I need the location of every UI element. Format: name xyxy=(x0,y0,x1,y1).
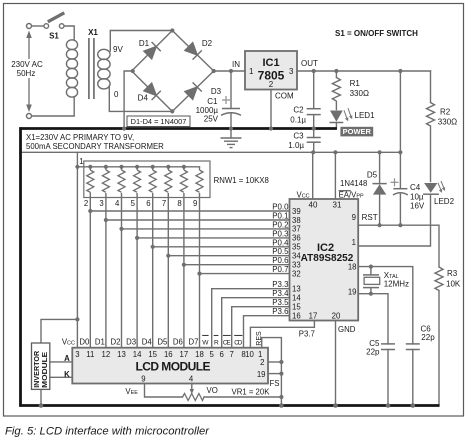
junction C4 / RST line xyxy=(398,223,402,227)
wire bridge left node to ground rail xyxy=(124,71,133,129)
LCD MODULE box xyxy=(72,348,268,384)
svg-text:19: 19 xyxy=(257,370,266,379)
op IC2 AT89S8252 microcontroller xyxy=(290,199,359,321)
svg-text:22p: 22p xyxy=(366,348,380,357)
svg-text:33: 33 xyxy=(292,261,301,270)
svg-text:VO: VO xyxy=(207,386,218,395)
capacitor C5 xyxy=(381,344,395,350)
junction LCD common to ground rail xyxy=(279,403,284,408)
svg-text:P0.2: P0.2 xyxy=(272,220,288,229)
junction RNW1 pin1 / Vcc trunk xyxy=(75,165,79,169)
node P3.6 wire to LCD CD pin8 xyxy=(244,316,290,348)
svg-text:50Hz: 50Hz xyxy=(17,69,36,78)
ground symbol below C1 xyxy=(221,138,242,148)
junction RNW1 common rail r7 xyxy=(182,165,186,169)
svg-text:1N4148: 1N4148 xyxy=(340,179,367,188)
wire +5V rail xyxy=(21,151,401,153)
junction XTAL1 pin18 xyxy=(369,265,373,269)
node POWER label xyxy=(340,127,373,137)
svg-text:230V AC: 230V AC xyxy=(11,60,43,69)
wire C5 bottom to ground rail xyxy=(387,350,389,406)
svg-text:A: A xyxy=(64,354,70,363)
wire R2 leads xyxy=(430,71,432,103)
capacitor C3 xyxy=(307,138,321,143)
node P0.5 wire xyxy=(168,255,289,257)
wire C3 leads xyxy=(313,129,315,138)
svg-text:3: 3 xyxy=(99,199,103,208)
svg-text:P3.5: P3.5 xyxy=(272,298,289,307)
svg-text:8: 8 xyxy=(177,199,181,208)
junction bridge top node xyxy=(170,28,174,32)
svg-text:RNW1 = 10KX8: RNW1 = 10KX8 xyxy=(214,176,269,185)
wire AC top terminal to S1 xyxy=(32,25,45,27)
svg-text:K: K xyxy=(64,370,70,379)
junction bridge left node xyxy=(131,69,135,73)
svg-text:X1: X1 xyxy=(88,28,98,37)
svg-text:W: W xyxy=(202,339,209,346)
svg-text:2: 2 xyxy=(260,358,264,367)
LCD top pin numbers xyxy=(75,350,262,359)
svg-text:13: 13 xyxy=(292,285,301,294)
wire LED1 to ground rail end xyxy=(335,123,337,129)
svg-text:VR1 = 20K: VR1 = 20K xyxy=(232,388,271,397)
junction LCD pin19 xyxy=(279,372,283,376)
RNW1 resistors xyxy=(87,167,203,193)
diode D5 xyxy=(373,184,386,194)
svg-text:37: 37 xyxy=(292,225,301,234)
resistor R1 xyxy=(332,78,340,102)
wire C2 leads xyxy=(313,71,315,109)
AC input terminal top xyxy=(27,24,32,29)
svg-text:RST: RST xyxy=(362,213,378,222)
wire IC2 pin18 to C6 xyxy=(358,267,413,344)
thick ground bus: left vertical xyxy=(19,127,22,405)
junction IC1 COM to ground bus xyxy=(269,126,273,130)
wire LCD pinA to invertor xyxy=(50,361,73,363)
svg-text:18: 18 xyxy=(348,262,357,271)
AC input terminal bottom xyxy=(27,114,32,119)
svg-text:5: 5 xyxy=(131,199,136,208)
svg-text:R: R xyxy=(214,339,219,346)
junction bridge negative to ground bus xyxy=(122,126,126,130)
svg-text:18: 18 xyxy=(195,350,204,359)
IC2 left pin numbers xyxy=(292,207,301,321)
junction RNW1 common rail r1 xyxy=(88,165,92,169)
wire LCD pin19 xyxy=(268,373,281,375)
svg-text:1: 1 xyxy=(352,238,356,247)
wire S1 to transformer primary top xyxy=(64,26,74,40)
thick ground bus: bottom rail xyxy=(19,404,439,407)
wire LED2 cathode to IC2 pin1 xyxy=(358,195,430,246)
svg-text:31: 31 xyxy=(333,201,342,210)
node P3.3 wire to LCD W pin5 xyxy=(212,289,290,348)
wire D5/P0.5 bus wire from RNW1 pin7 xyxy=(167,193,169,348)
junction XTAL2 pin19 xyxy=(369,292,373,296)
svg-text:17: 17 xyxy=(309,312,318,321)
wire IC2 pin20 GND to ground rail xyxy=(335,321,337,406)
junction VR1 wire xyxy=(279,395,283,399)
diode D3 xyxy=(185,82,202,99)
svg-text:D5: D5 xyxy=(157,338,168,347)
svg-text:P0.3: P0.3 xyxy=(272,229,289,238)
node P3.4 wire to LCD R pin6 xyxy=(222,298,290,348)
capacitor C4 xyxy=(393,189,408,195)
svg-text:S1 = ON/OFF SWITCH: S1 = ON/OFF SWITCH xyxy=(335,29,418,38)
junction RNW1 common rail r6 xyxy=(166,165,170,169)
junction P0.1 tap xyxy=(104,218,108,222)
wire invertor module to ground rail xyxy=(40,389,42,405)
junction C3 / +5V rail / IC2 Vcc xyxy=(311,150,315,154)
junction invertor supply tap xyxy=(75,317,79,321)
wire IC2 EA pin31 xyxy=(334,152,336,199)
wire LCD pin4 VO wiper xyxy=(191,384,193,390)
svg-text:P0.7: P0.7 xyxy=(272,265,288,274)
svg-text:4: 4 xyxy=(115,199,120,208)
data bus vertical wires RNW1 pins 2-9 to LCD D0-D7 xyxy=(90,193,289,348)
svg-text:CE: CE xyxy=(223,339,231,346)
svg-text:19: 19 xyxy=(348,288,357,297)
svg-text:D1-D4 = 1N4007: D1-D4 = 1N4007 xyxy=(131,117,187,126)
wire IC1 OUT rail xyxy=(297,70,431,72)
primary coil xyxy=(66,40,77,50)
svg-text:12: 12 xyxy=(102,350,111,359)
svg-text:9: 9 xyxy=(141,375,145,384)
svg-text:P3.4: P3.4 xyxy=(272,289,289,298)
svg-text:10: 10 xyxy=(245,350,254,359)
junction P0.7 tap xyxy=(197,272,201,276)
wire RNW1 top rail xyxy=(77,166,199,168)
wire D0/P0.0 bus wire from RNW1 pin2 xyxy=(89,193,91,348)
svg-text:R3: R3 xyxy=(447,269,458,278)
junction P0.3 tap xyxy=(135,236,139,240)
svg-text:D7: D7 xyxy=(189,338,199,347)
svg-text:38: 38 xyxy=(292,216,301,225)
svg-text:D5: D5 xyxy=(367,171,378,180)
svg-text:5: 5 xyxy=(210,350,215,359)
capacitor C2 xyxy=(307,109,321,115)
wire IC2 Vcc pin40 xyxy=(312,152,314,199)
INVERTOR MODULE box xyxy=(32,343,50,389)
svg-text:12MHz: 12MHz xyxy=(384,280,409,289)
svg-text:14: 14 xyxy=(292,294,301,303)
junction RNW1 common rail r2 xyxy=(104,165,108,169)
svg-text:X1=230V AC PRIMARY TO 9V,: X1=230V AC PRIMARY TO 9V, xyxy=(26,133,134,142)
node D1-D4 = 1N4007 label box xyxy=(127,116,190,127)
IC1 7805 regulator xyxy=(245,51,297,90)
thick ground bus: note box top edge xyxy=(21,127,337,130)
svg-text:40: 40 xyxy=(309,201,318,210)
svg-text:4: 4 xyxy=(189,375,194,384)
svg-text:P0.5: P0.5 xyxy=(272,247,289,256)
svg-text:11: 11 xyxy=(86,350,94,359)
junction invertor to ground rail xyxy=(39,403,44,408)
wire XTAL top lead xyxy=(370,267,372,275)
diode D4 xyxy=(144,83,161,100)
svg-text:CD: CD xyxy=(234,339,243,346)
svg-text:D3: D3 xyxy=(211,87,222,96)
svg-text:9V: 9V xyxy=(113,45,123,54)
svg-text:C4: C4 xyxy=(410,183,421,192)
svg-text:R1: R1 xyxy=(350,79,361,88)
wire bridge right node to IC1 IN xyxy=(214,70,245,72)
svg-text:RES: RES xyxy=(256,331,263,346)
svg-text:7: 7 xyxy=(162,199,166,208)
capacitor C6 xyxy=(406,344,420,350)
svg-text:P3.7: P3.7 xyxy=(299,330,315,339)
svg-text:D0: D0 xyxy=(79,338,90,347)
svg-text:14: 14 xyxy=(133,350,142,359)
node P0.7 wire xyxy=(200,273,290,275)
junction LCD pin2 xyxy=(279,360,283,364)
wire D1/P0.1 bus wire from RNW1 pin3 xyxy=(105,193,107,348)
wire IC1 COM pin2 to ground rail xyxy=(270,90,272,129)
junction C2/C3 to ground bus xyxy=(312,126,316,130)
svg-text:OUT: OUT xyxy=(301,59,318,68)
svg-text:D6: D6 xyxy=(173,338,183,347)
svg-text:16: 16 xyxy=(164,350,173,359)
wire D3/P0.3 bus wire from RNW1 pin5 xyxy=(136,193,138,348)
LED1 xyxy=(330,111,343,122)
svg-text:C2: C2 xyxy=(293,106,304,115)
junction P0.0 tap xyxy=(88,209,92,213)
svg-text:P0.1: P0.1 xyxy=(272,212,288,221)
node P0.6 wire xyxy=(184,264,290,266)
svg-text:3: 3 xyxy=(289,67,294,76)
svg-text:7: 7 xyxy=(230,350,234,359)
LCD top pin labels xyxy=(62,338,199,347)
wire D6/P0.6 bus wire from RNW1 pin8 xyxy=(183,193,185,348)
wire invertor module supply tap xyxy=(41,319,77,343)
junction bridge bottom node xyxy=(170,109,174,113)
svg-text:AT89S8252: AT89S8252 xyxy=(301,253,354,264)
svg-text:16V: 16V xyxy=(410,202,425,211)
diode D1 xyxy=(144,42,161,59)
svg-text:0: 0 xyxy=(114,90,119,99)
svg-text:D1: D1 xyxy=(139,39,150,48)
junction C1 to ground bus xyxy=(229,126,233,130)
port labels xyxy=(272,203,289,317)
svg-text:P0.6: P0.6 xyxy=(272,256,289,265)
svg-text:9: 9 xyxy=(352,213,356,222)
junction RNW1 common rail r3 xyxy=(119,165,123,169)
junction RNW1 common rail r4 xyxy=(135,165,139,169)
svg-text:P3.3: P3.3 xyxy=(272,280,289,289)
resistor network RNW1 box xyxy=(84,161,210,198)
svg-text:D2: D2 xyxy=(111,338,121,347)
wire R3 bottom to ground rail xyxy=(438,291,440,406)
bridge rectifier arms xyxy=(132,31,214,112)
svg-text:1.0µ: 1.0µ xyxy=(288,141,304,150)
svg-text:32: 32 xyxy=(292,269,301,278)
svg-text:LED1: LED1 xyxy=(355,111,376,120)
junction EA pin31 / +5V rail xyxy=(333,150,337,154)
svg-text:1: 1 xyxy=(79,157,83,166)
wire AC bottom terminal to primary bottom xyxy=(32,97,75,116)
svg-text:34: 34 xyxy=(292,252,301,261)
svg-text:MODULE: MODULE xyxy=(40,352,49,388)
svg-text:C3: C3 xyxy=(293,132,304,141)
node P0.2 wire xyxy=(122,228,290,230)
svg-text:6: 6 xyxy=(146,199,150,208)
resistor R2 xyxy=(427,103,435,127)
junction C5 to ground rail xyxy=(386,403,391,408)
wire C1 leads xyxy=(230,71,232,109)
secondary coil xyxy=(98,49,110,59)
svg-text:17: 17 xyxy=(180,350,189,359)
svg-text:3: 3 xyxy=(75,350,79,359)
junction P0.4 tap xyxy=(151,245,155,249)
svg-text:39: 39 xyxy=(292,207,301,216)
svg-text:330Ω: 330Ω xyxy=(438,118,457,127)
node P0.0 wire xyxy=(90,210,289,212)
junction P0.6 tap xyxy=(182,263,186,267)
svg-text:R2: R2 xyxy=(440,108,451,117)
svg-text:35: 35 xyxy=(292,243,301,252)
wire Vcc trunk down to LCD pin3 xyxy=(76,167,78,348)
junction R1 / OUT rail xyxy=(334,69,338,73)
AC voltage arrows xyxy=(26,31,32,113)
svg-text:9: 9 xyxy=(193,199,197,208)
wire LCD pin2 xyxy=(268,361,281,363)
svg-text:D3: D3 xyxy=(126,338,136,347)
svg-text:500mA SECONDARY TRANSFORMER: 500mA SECONDARY TRANSFORMER xyxy=(26,142,164,151)
svg-text:Fig. 5: LCD interface with mic: Fig. 5: LCD interface with microcontroll… xyxy=(5,426,210,438)
wire IC2 pin17 P3.7 to LCD RES pin10 xyxy=(250,321,314,348)
svg-text:LCD MODULE: LCD MODULE xyxy=(136,360,211,374)
svg-text:P0.0: P0.0 xyxy=(272,203,289,212)
svg-text:D4: D4 xyxy=(138,94,149,103)
LED2 xyxy=(424,183,437,193)
svg-text:25V: 25V xyxy=(204,115,219,124)
junction C6 to ground rail xyxy=(411,403,416,408)
wire OUT to +5V rail vertical xyxy=(399,71,401,152)
svg-text:0.1µ: 0.1µ xyxy=(290,116,306,125)
node P0.3 wire xyxy=(137,237,289,239)
wire D2/P0.2 bus wire from RNW1 pin4 xyxy=(121,193,123,348)
junction IC2 GND to ground rail xyxy=(333,403,338,408)
node P3.5 wire to LCD CE pin7 xyxy=(232,307,290,348)
junction P0.2 tap xyxy=(119,227,123,231)
svg-text:36: 36 xyxy=(292,234,301,243)
svg-text:15: 15 xyxy=(292,303,301,312)
svg-text:D1: D1 xyxy=(95,338,105,347)
svg-text:D4: D4 xyxy=(142,338,153,347)
capacitor C1 xyxy=(221,109,241,116)
wire VR1 right to LCD pin1 column xyxy=(204,396,281,398)
svg-text:16: 16 xyxy=(292,312,301,321)
wire R1 top lead xyxy=(335,71,337,78)
wire IC2 pin19 to C5 xyxy=(358,294,388,344)
node P0.4 wire xyxy=(153,246,290,248)
svg-text:FS: FS xyxy=(270,379,280,388)
svg-text:LED2: LED2 xyxy=(434,197,455,206)
svg-text:COM: COM xyxy=(275,92,294,101)
IC2 right pin numbers xyxy=(348,213,357,297)
wire LCD pin1 loop xyxy=(262,338,282,406)
junction P0.5 tap xyxy=(166,254,170,258)
svg-text:IN: IN xyxy=(232,60,240,69)
wire LCD pinK to invertor xyxy=(50,376,73,378)
diode D2 xyxy=(185,43,202,60)
wire secondary top to bridge top node xyxy=(110,31,172,52)
wire XTAL bottom lead xyxy=(370,288,372,294)
svg-text:13: 13 xyxy=(117,350,126,359)
wire RNW1 pin1 to +5V rail xyxy=(76,152,78,167)
svg-text:2: 2 xyxy=(84,199,88,208)
potentiometer VR1 xyxy=(183,394,205,401)
wire secondary bottom to bridge bottom node xyxy=(109,86,172,111)
wire C6 bottom to ground rail xyxy=(412,350,414,406)
svg-text:P3.6: P3.6 xyxy=(272,307,289,316)
node P0.1 wire xyxy=(106,219,290,221)
svg-text:D2: D2 xyxy=(202,39,213,48)
wire D4/P0.4 bus wire from RNW1 pin6 xyxy=(152,193,154,348)
RNW1 pin numbers 2-9 xyxy=(84,199,198,208)
junction D5 / +5V rail xyxy=(378,150,382,154)
svg-text:6: 6 xyxy=(220,350,224,359)
wire R1 to LED1 xyxy=(335,102,337,110)
svg-text:POWER: POWER xyxy=(343,127,372,136)
wire D5 leads xyxy=(379,152,381,183)
svg-text:1: 1 xyxy=(249,67,254,76)
svg-text:10K: 10K xyxy=(446,280,461,289)
junction RNW1 common rail r5 xyxy=(151,165,155,169)
overlines for W R CE CD xyxy=(202,334,242,336)
svg-text:P0.4: P0.4 xyxy=(272,238,289,247)
svg-text:15: 15 xyxy=(148,350,157,359)
svg-text:10µ: 10µ xyxy=(410,193,424,202)
junction OUT rail to +5V drop xyxy=(398,69,402,73)
wire D7/P0.7 bus wire from RNW1 pin9 xyxy=(199,193,201,348)
svg-text:2: 2 xyxy=(269,80,274,89)
svg-text:GND: GND xyxy=(338,325,356,334)
junction C4 / +5V rail xyxy=(398,150,402,154)
crystal XTAL xyxy=(363,275,380,288)
svg-text:22p: 22p xyxy=(421,333,435,342)
junction D5 / RST line xyxy=(378,223,382,227)
svg-text:330Ω: 330Ω xyxy=(350,89,369,98)
resistor R3 xyxy=(435,267,443,290)
wire C4 leads xyxy=(399,152,401,188)
svg-text:C1: C1 xyxy=(207,97,218,106)
core xyxy=(88,38,90,99)
wire RST line pin9 to R3 xyxy=(358,225,439,267)
svg-text:IC1: IC1 xyxy=(262,57,279,69)
junction bridge right node xyxy=(212,69,216,73)
junction C2 / OUT rail xyxy=(312,69,316,73)
junction C1 top / IN rail xyxy=(229,69,233,73)
wire LCD pin9 VEE xyxy=(145,384,183,398)
svg-text:S1: S1 xyxy=(49,32,59,41)
switch S1 xyxy=(44,24,49,29)
svg-text:20: 20 xyxy=(332,312,341,321)
